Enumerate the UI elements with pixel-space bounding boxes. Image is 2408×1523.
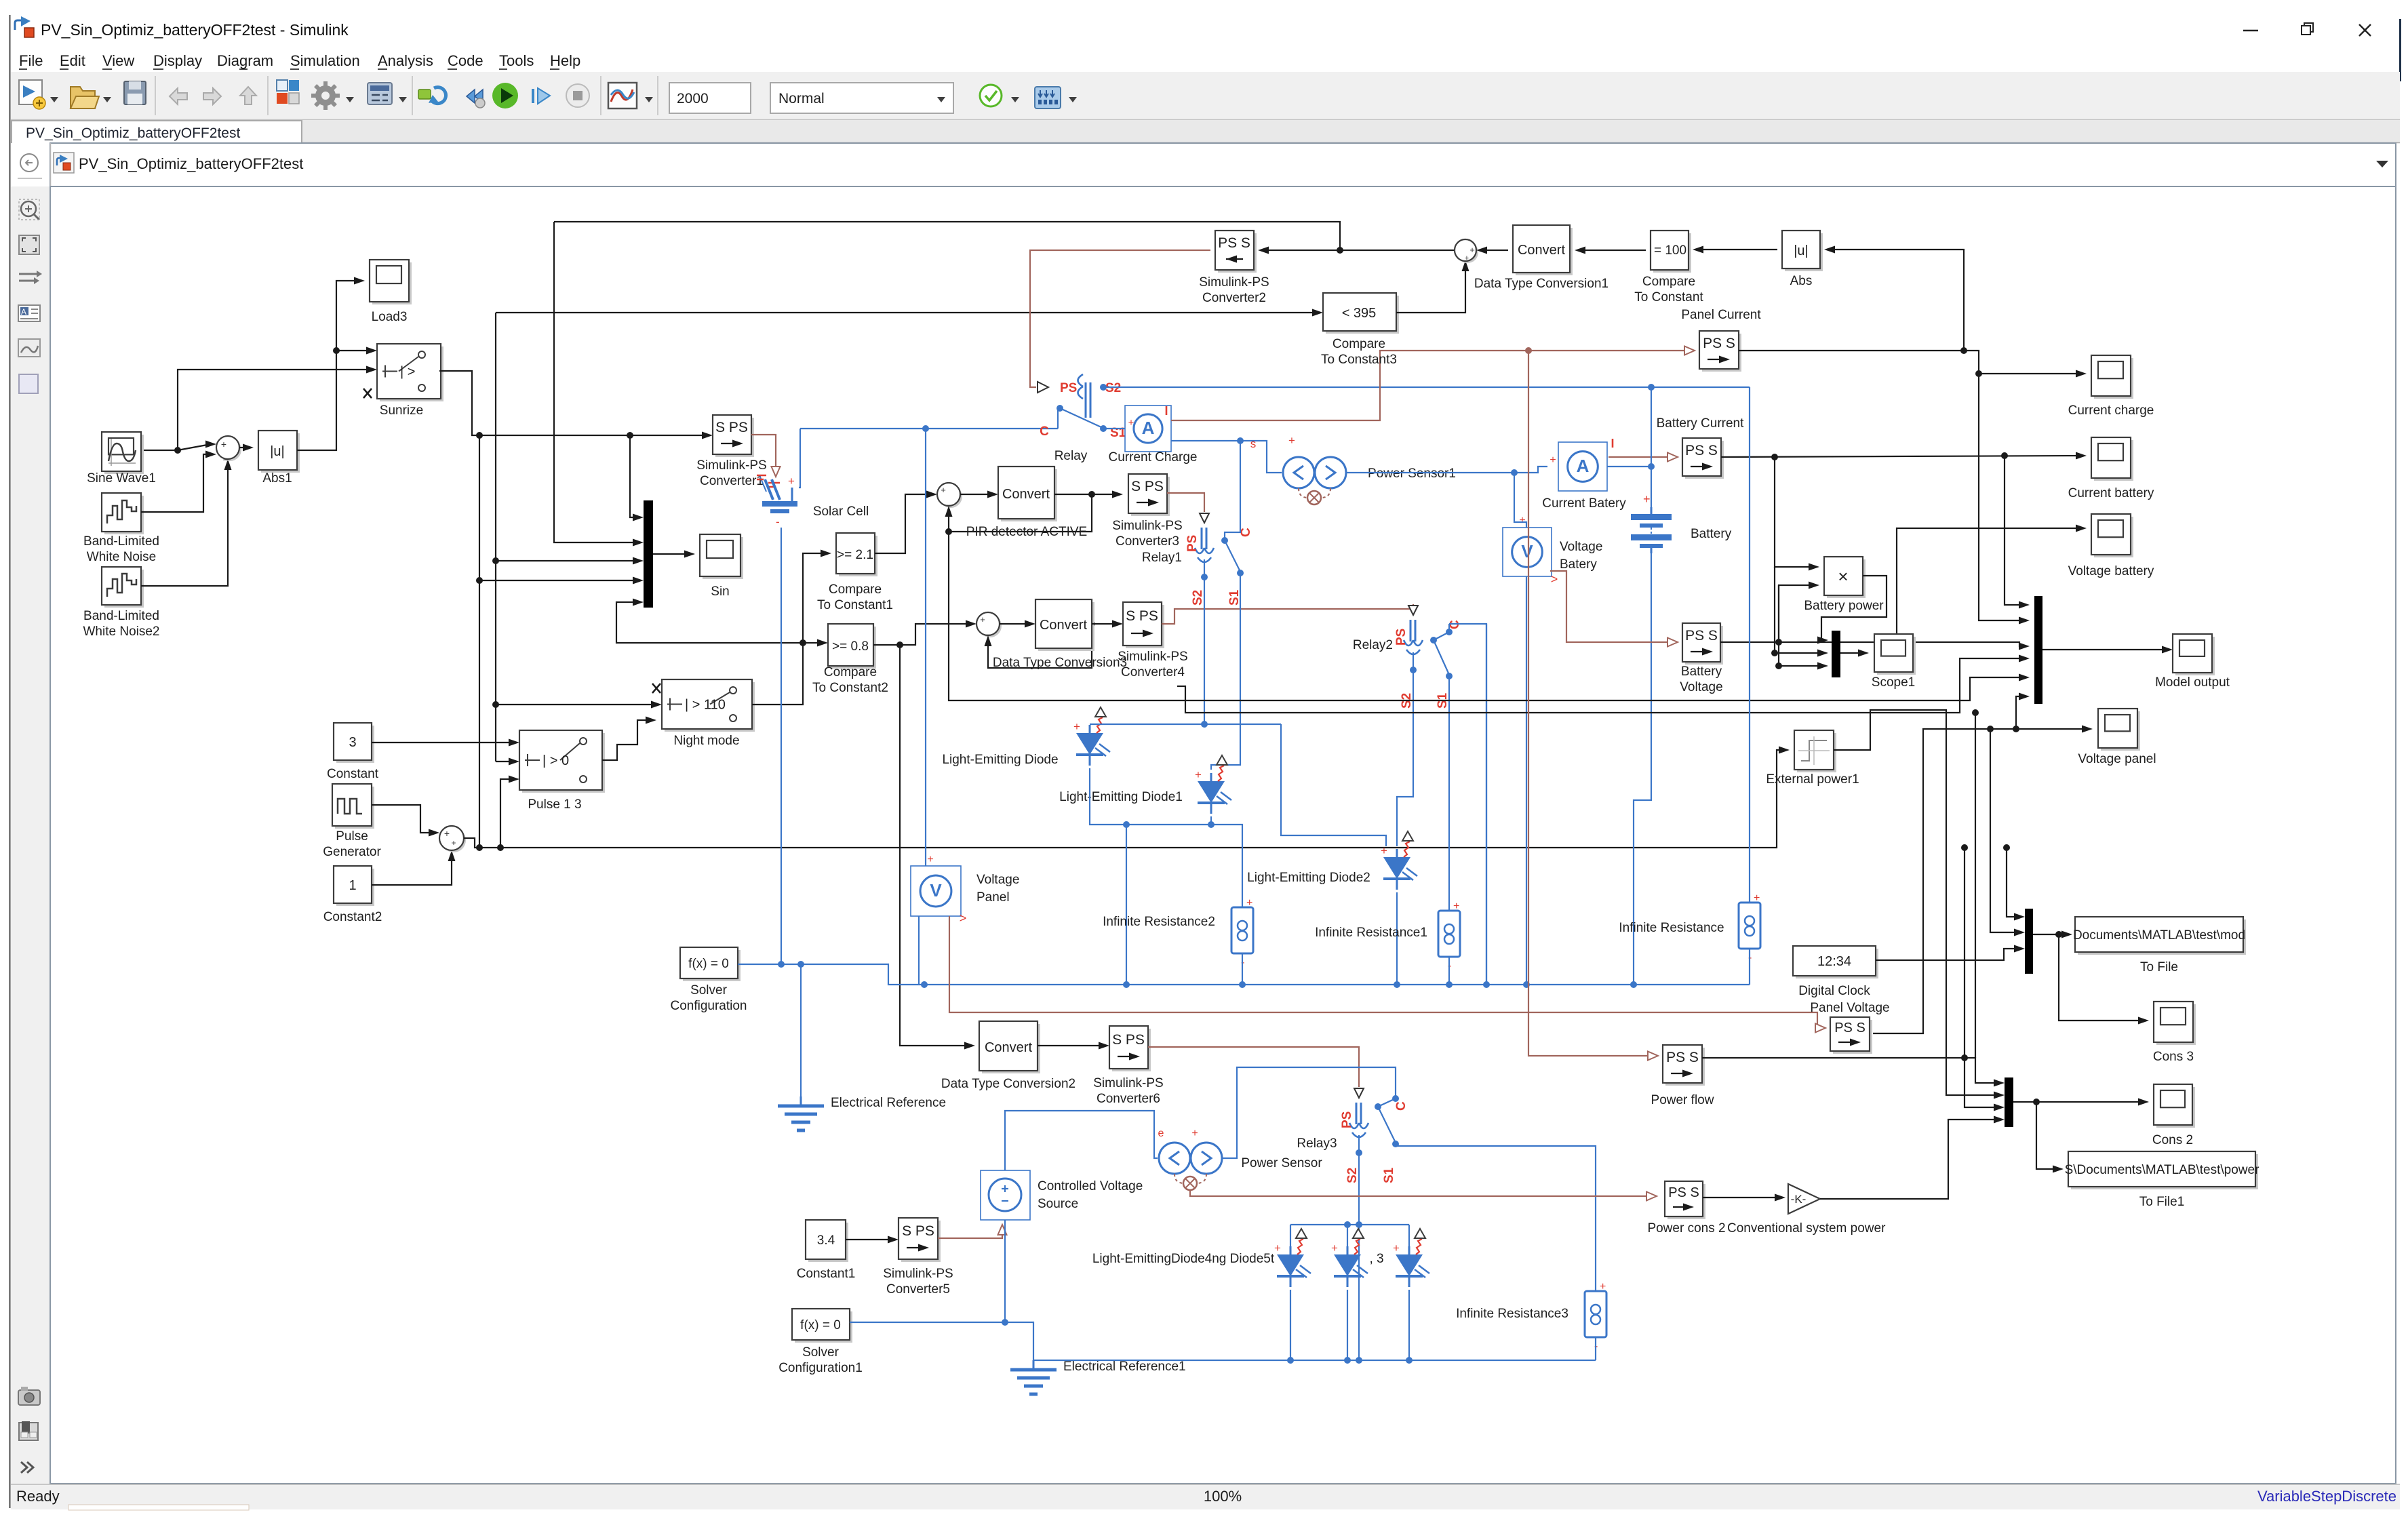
wire Infinite Resistance3 bottom to rail: [1595, 1337, 1596, 1360]
toolstrip separator: [18, 178, 42, 179]
svg-text:S1: S1: [1382, 1167, 1396, 1183]
wire LED bottoms to rail: [1290, 1290, 1291, 1360]
svg-text:+: +: [444, 828, 450, 839]
wire x2959 to To File mux in1: [2007, 848, 2019, 917]
wire Infinite Resistance bottom to rail y1452: [1749, 949, 1750, 985]
block Convert (Data Type Conversion3): [1038, 602, 1094, 651]
svg-text:-K-: -K-: [1791, 1193, 1807, 1206]
svg-text:12:34: 12:34: [1817, 954, 1851, 969]
block Simulink-PS Converter5: [901, 1221, 941, 1262]
svg-text:Power flow: Power flow: [1651, 1093, 1714, 1107]
svg-text:Simulink-PS: Simulink-PS: [696, 458, 766, 473]
wire DTC3 to Simulink-PS Converter4: [1092, 623, 1118, 625]
wire x731 to Night mode in2: [496, 704, 656, 705]
svg-text:Relay: Relay: [1054, 449, 1088, 463]
svg-text:Infinite Resistance1: Infinite Resistance1: [1315, 926, 1427, 940]
svg-text:Converter1: Converter1: [700, 474, 764, 488]
toolbar icon: run: [492, 83, 518, 108]
mux Scope1 mux: [1832, 631, 1840, 677]
svg-text:I: I: [1611, 437, 1614, 450]
svg-text:S PS: S PS: [1126, 608, 1158, 624]
svg-text:s: s: [1250, 437, 1257, 450]
block Sunrize switch: [380, 347, 443, 401]
svg-text:Current Charge: Current Charge: [1109, 450, 1198, 464]
component Current Charge ammeter: [1125, 406, 1171, 452]
svg-text:_: _: [947, 496, 952, 506]
wire x2623 to Battery power in2: [1779, 585, 1814, 642]
svg-text:Solver: Solver: [690, 983, 728, 997]
svg-text:Data Type Conversion2: Data Type Conversion2: [941, 1077, 1075, 1091]
svg-text:Current Batery: Current Batery: [1542, 496, 1626, 511]
svg-text:Convert: Convert: [1040, 618, 1087, 633]
wire Relay1 C from ammeter net: [1225, 441, 1240, 540]
breadcrumb model icon: [54, 153, 74, 173]
component Infinite Resistance: [1739, 903, 1760, 949]
wire Convert to Simulink-PS Converter3: [1054, 494, 1118, 495]
svg-text:+: +: [788, 475, 795, 488]
svg-text:+: +: [1288, 434, 1295, 447]
block Night mode switch: [665, 682, 755, 732]
svg-text:Simulink-PS: Simulink-PS: [1199, 275, 1269, 290]
toolbar icon: forward: [203, 88, 221, 104]
component LED3 (bottom): [1408, 1246, 1410, 1254]
toolbar icon: update diagram: [418, 87, 446, 104]
block Load3 scope: [372, 262, 412, 304]
svg-text:Light-Emitting Diode: Light-Emitting Diode: [942, 753, 1058, 767]
svg-text:1: 1: [349, 878, 356, 893]
svg-text:Compare: Compare: [824, 665, 877, 679]
svg-text:PS S: PS S: [1834, 1021, 1866, 1035]
svg-text:Band-Limited: Band-Limited: [83, 609, 159, 623]
svg-text:To Constant: To Constant: [1634, 290, 1703, 304]
component Solar Cell: [765, 479, 773, 500]
svg-text:+: +: [1195, 768, 1202, 781]
wire Night mode output up to compare lines: [752, 553, 826, 705]
svg-text:+: +: [1519, 515, 1525, 526]
block Voltage panel scope: [2101, 711, 2140, 751]
svg-text:Convert: Convert: [1518, 243, 1565, 258]
svg-text:Electrical Reference1: Electrical Reference1: [1063, 1360, 1186, 1374]
wire Power Sensor output to Relay3 C: [1222, 1067, 1396, 1158]
toolbar icon: back: [170, 88, 187, 104]
block Power cons 2 PS S: [1667, 1184, 1705, 1219]
svg-text:+: +: [1274, 1242, 1281, 1254]
svg-text:>: >: [1551, 572, 1558, 586]
block Simulink-PS Converter1: [715, 418, 754, 457]
window left border: [9, 15, 11, 1508]
wire Converter1 PS output down to Solar Cell: [751, 435, 776, 472]
wire Infinite Resistance1 to rail: [1448, 957, 1450, 985]
svg-text:| >: | >: [400, 365, 415, 380]
svg-text:Voltage: Voltage: [976, 873, 1019, 887]
svg-text:+: +: [1465, 254, 1469, 262]
svg-text:Panel Voltage: Panel Voltage: [1810, 1001, 1889, 1015]
wire Relay S1 to Current Charge ammeter: [1103, 428, 1126, 429]
svg-text:Solver: Solver: [802, 1345, 840, 1360]
wire Sum1 to Abs1: [239, 447, 248, 448]
toolstrip icon: screenshot camera: [18, 1387, 40, 1405]
block Current charge scope: [2094, 358, 2133, 399]
component Voltage Batery voltmeter: [1503, 528, 1552, 576]
active document tab: [12, 121, 302, 143]
window title bar: [0, 0, 2408, 51]
svg-text:To Constant3: To Constant3: [1321, 353, 1397, 367]
toolbar icon: model settings table: [368, 83, 392, 104]
svg-text:V: V: [930, 880, 942, 901]
sum block Sum5: [1457, 241, 1478, 263]
svg-text:Scope1: Scope1: [1872, 675, 1915, 690]
svg-text:Current battery: Current battery: [2068, 486, 2154, 500]
wire blue rail y571 from Relay S2: [1103, 387, 1750, 388]
wire LED2 bottom to rail: [1396, 892, 1398, 985]
svg-text:PS: PS: [1394, 629, 1408, 646]
svg-text:Convert: Convert: [985, 1040, 1032, 1055]
wire Pulse 1 3 inputs from x731: [496, 761, 514, 762]
svg-text:+: +: [1128, 417, 1134, 429]
wire Sum5 to Converter2: [1263, 250, 1455, 251]
svg-text:Light-EmittingDiode4ng Diode5t: Light-EmittingDiode4ng Diode5t: [1092, 1252, 1275, 1266]
svg-text:V: V: [1521, 541, 1533, 561]
wire Converter4 PS to Relay2: [1162, 604, 1413, 624]
svg-text:+: +: [1331, 1242, 1338, 1254]
svg-text:S PS: S PS: [1112, 1032, 1145, 1048]
toolbar icon: check (advisor): [980, 85, 1002, 106]
svg-text:Load3: Load3: [372, 310, 408, 324]
component Light-Emitting Diode1: [1210, 773, 1212, 781]
svg-text:Data Type Conversion1: Data Type Conversion1: [1474, 277, 1608, 291]
toolstrip icon: print: [19, 1421, 38, 1440]
wire Sum4 to Data Type Conversion3: [1000, 623, 1030, 625]
svg-text:External power1: External power1: [1766, 772, 1859, 787]
svg-text:Panel Current: Panel Current: [1681, 308, 1761, 322]
component LED4 (bottom): [1290, 1246, 1292, 1254]
wire top feedback y327: [554, 222, 1340, 250]
toolbar icon: library browser: [277, 80, 299, 104]
wire y461 to Compare To Constant3: [496, 312, 1318, 313]
wire Power Sensor1 to Current Batery: [1346, 467, 1547, 473]
wire gain output to Cons2 mux in4: [1820, 1120, 1999, 1199]
svg-text:S2: S2: [1105, 381, 1121, 395]
svg-text:Configuration1: Configuration1: [778, 1361, 863, 1375]
component Power Sensor1: [1283, 457, 1314, 488]
svg-text:+: +: [1381, 844, 1387, 857]
component Voltage Panel voltmeter: [911, 866, 961, 916]
block Cons 2 scope: [2156, 1087, 2195, 1128]
component LED5 (bottom): [1347, 1246, 1349, 1254]
svg-text:Power Sensor1: Power Sensor1: [1368, 467, 1456, 481]
sum block Sum3 (PIR): [939, 485, 962, 508]
block Panel Voltage PS S: [1833, 1020, 1872, 1054]
svg-text:+: +: [1073, 720, 1080, 733]
wire Cons2 mux to Cons 2 scope: [2013, 1101, 2144, 1103]
wire Solver Configuration to ground net: [738, 964, 1750, 985]
svg-text:f(x) = 0: f(x) = 0: [688, 957, 729, 971]
mux To File mux: [2025, 909, 2033, 974]
toolbar stop-time field: [669, 83, 751, 113]
wire stub mux in6: [949, 532, 2024, 700]
wire Solar Cell - down to ground net: [781, 528, 782, 964]
wire x2617 to Battery power in1: [1775, 457, 1814, 567]
block Compare To Constant1: [839, 536, 877, 576]
wire Relay2 S1 to Infinite Resistance1: [1448, 676, 1450, 911]
svg-text:PIR detector ACTIVE: PIR detector ACTIVE: [966, 525, 1087, 539]
svg-text:+: +: [221, 439, 226, 450]
svg-text:Converter2: Converter2: [1202, 291, 1266, 305]
sum block Sum2: [441, 828, 466, 852]
svg-text:= 100: = 100: [1654, 243, 1686, 258]
wire Converter6 PS to Relay3: [1148, 1047, 1359, 1087]
wire Digital Clock to To File mux: [1876, 949, 2019, 960]
toolbar icon: gear: [311, 81, 340, 110]
wire mux bottom in7 from Voltage panel line: [2016, 696, 2024, 729]
svg-text:_: _: [222, 450, 229, 460]
svg-text:PS S: PS S: [1666, 1050, 1699, 1065]
wire Voltage Panel top from blue rail y639: [925, 429, 926, 866]
sum block Sum1: [218, 438, 241, 461]
wire Relay2 S2 to Light-Emitting Diode2: [1397, 652, 1413, 846]
wire Solver Configuration1 to ground: [850, 1322, 1033, 1360]
block Battery Voltage PS S: [1685, 626, 1723, 665]
component Current Batery ammeter: [1558, 442, 1607, 491]
toolstrip icon: viewmarks: [19, 374, 38, 393]
wire Current Charge output to Power Sensor1: [1171, 441, 1282, 473]
wire LED5 top stub: [1347, 1225, 1348, 1246]
block Current battery scope: [2094, 440, 2133, 481]
svg-text:f(x) = 0: f(x) = 0: [800, 1318, 841, 1332]
component Infinite Resistance2: [1231, 907, 1253, 953]
svg-text:Light-Emitting Diode1: Light-Emitting Diode1: [1059, 790, 1183, 804]
toolbar icon: save: [124, 81, 146, 104]
svg-text:C: C: [1239, 528, 1253, 537]
wire Converter3 PS to Relay1: [1167, 493, 1204, 512]
wire Relay2 C to x2192: [1449, 624, 1486, 985]
toolstrip icon: annotation: [18, 305, 40, 321]
svg-text:Voltage battery: Voltage battery: [2068, 564, 2154, 578]
toolbar: [11, 72, 2400, 119]
wire Battery power to Scope1 mux in1: [1821, 576, 1887, 640]
wire Scope1 mux to Scope1: [1840, 652, 1863, 654]
wire Constant2 to Sum2 bottom: [372, 856, 452, 885]
block To File: [2078, 919, 2246, 955]
component Relay2: [1408, 606, 1418, 615]
svg-text:Cons 2: Cons 2: [2152, 1133, 2193, 1147]
svg-text:Constant2: Constant2: [323, 910, 382, 924]
sum block Sum4: [979, 614, 1002, 637]
component Controlled Voltage Source: [981, 1170, 1030, 1220]
block Compare To Constant (= 1000): [1653, 233, 1691, 273]
wire LED bottoms rail y1216: [1090, 768, 1242, 908]
gain block -K- Conventional system power: [1788, 1184, 1820, 1214]
svg-text:+: +: [1469, 245, 1475, 255]
wire x2192 vertical from power sensor line: [1486, 624, 1487, 985]
wire Battery bottom to rail y1452: [1634, 553, 1651, 985]
svg-text:>= 0.8: >= 0.8: [832, 639, 869, 654]
svg-text:Generator: Generator: [323, 845, 381, 859]
wire brown x2254 to Power flow: [1528, 351, 1653, 1056]
svg-text:|u|: |u|: [1794, 243, 1809, 258]
svg-text:Converter3: Converter3: [1116, 534, 1179, 549]
svg-text:Relay1: Relay1: [1142, 551, 1182, 565]
svg-text:Solar Cell: Solar Cell: [813, 505, 869, 519]
toolbar icon: build grid: [1035, 87, 1061, 108]
toolbar mode dropdown: [770, 83, 953, 113]
wire External power1 output: [1834, 710, 1999, 1095]
svg-text:Constant1: Constant1: [797, 1267, 856, 1281]
toolbar icon: open: [71, 87, 99, 108]
svg-text:Voltage: Voltage: [1680, 680, 1722, 694]
svg-text:Abs1: Abs1: [262, 471, 292, 486]
wire Infinite Resistance2 to rail: [1242, 953, 1243, 985]
component Battery: [1651, 507, 1653, 514]
component Infinite Resistance1: [1438, 911, 1460, 957]
svg-text:Digital Clock: Digital Clock: [1798, 984, 1870, 998]
component Relay: [1038, 382, 1048, 393]
window close button: [2359, 24, 2371, 36]
component Electrical Reference1 ground: [1033, 1360, 1035, 1370]
svg-text:Power Sensor: Power Sensor: [1241, 1156, 1322, 1170]
toolbar icon: new model: [19, 80, 45, 109]
svg-text:Panel: Panel: [976, 890, 1010, 905]
svg-text:S PS: S PS: [1131, 479, 1164, 494]
toolstrip icon: zoom: [19, 199, 39, 220]
svg-text:Sunrize: Sunrize: [380, 403, 423, 418]
svg-text:|u|: |u|: [270, 444, 285, 459]
wire Compare To Constant3 to Sum5 bottom: [1396, 266, 1465, 313]
block Model output scope: [2175, 637, 2215, 675]
svg-text:Infinite Resistance2: Infinite Resistance2: [1103, 915, 1215, 929]
wire Sum2 to long feedback line and External power1: [464, 750, 1784, 848]
status bar: [11, 1484, 2400, 1509]
toolstrip expand chevrons: [21, 1462, 33, 1473]
component Infinite Resistance3: [1585, 1291, 1606, 1337]
wire Sum4 bottom feedback from DTC3 output: [988, 624, 1092, 668]
wire Abs to Compare To Constant: [1698, 249, 1777, 250]
block Constant2 value 1: [336, 869, 374, 906]
wire blue rail y639 from Solar Cell to Relay C: [800, 428, 1058, 429]
svg-text:Converter4: Converter4: [1121, 665, 1185, 679]
svg-text:Convert: Convert: [1002, 487, 1050, 502]
wire Controlled Voltage Source bottom to ground rail: [1004, 1220, 1006, 1322]
block Pulse Generator: [335, 787, 374, 829]
wire Abs input from x2896 (panel current loop): [1830, 250, 1964, 351]
svg-text:Battery Current: Battery Current: [1657, 416, 1745, 431]
svg-text:S PS: S PS: [715, 420, 748, 435]
wire Relay3 S2 down to LED rail: [1358, 1135, 1360, 1360]
svg-text:+: +: [1246, 897, 1252, 909]
wire Compare To Constant1 to Sum3: [875, 494, 932, 553]
wire Sine Wave1 to Sum1 and Sunrize in2: [141, 450, 178, 451]
svg-text:To File: To File: [2140, 960, 2178, 974]
svg-text:_: _: [986, 626, 991, 635]
svg-text:A: A: [1577, 456, 1590, 476]
svg-text:Sine Wave1: Sine Wave1: [87, 471, 156, 486]
svg-text:Batery: Batery: [1560, 557, 1597, 572]
svg-text:Infinite Resistance3: Infinite Resistance3: [1456, 1307, 1568, 1321]
svg-text:C: C: [1040, 424, 1049, 439]
block Convert (Data Type Conversion2): [982, 1024, 1040, 1073]
wire Relay1 S2 down to LED rail: [1204, 559, 1205, 724]
wire vertical x707 distribution: [479, 435, 480, 848]
component Relay3: [1354, 1088, 1364, 1098]
wire Convert DTC1 to Sum5: [1482, 250, 1508, 251]
svg-text:>: >: [960, 911, 967, 925]
svg-text:Compare: Compare: [1333, 337, 1385, 351]
svg-text:Night mode: Night mode: [673, 734, 739, 748]
wire To File mux to To File: [2033, 934, 2067, 935]
window minimize button: [2243, 30, 2258, 31]
block Simulink-PS Converter3: [1131, 477, 1170, 516]
svg-text:×: ×: [1838, 566, 1848, 587]
svg-text:Band-Limited: Band-Limited: [83, 534, 159, 549]
block Simulink-PS Converter6: [1112, 1029, 1151, 1071]
component Electrical Reference ground: [800, 1096, 802, 1106]
svg-text:+: +: [1643, 492, 1651, 506]
block Abs (top right): [1785, 233, 1823, 271]
svg-text:S PS: S PS: [902, 1223, 934, 1239]
svg-text:| > 110: | > 110: [685, 698, 726, 713]
wire x731 vertical: [495, 313, 496, 761]
svg-text:+: +: [1600, 1281, 1606, 1292]
svg-text:To Constant2: To Constant2: [812, 681, 888, 695]
mux Mux1 (5 inputs to Sin): [644, 500, 653, 608]
svg-text:I: I: [1164, 404, 1168, 418]
svg-text:Model output: Model output: [2155, 675, 2230, 690]
wire Voltage Batery PS output to Battery Voltage PS S: [1550, 571, 1672, 642]
svg-text:Cons 3: Cons 3: [2153, 1050, 2194, 1064]
wire Current Charge I output to Panel Current PS S: [1171, 351, 1689, 420]
wire Battery Current to Current battery scope and mux: [1721, 456, 2081, 457]
mux Model output mux: [2034, 596, 2042, 704]
component Light-Emitting Diode: [1089, 725, 1091, 733]
svg-text:Abs: Abs: [1790, 274, 1813, 288]
block Convert (PIR detector): [1001, 469, 1057, 521]
svg-text:< 395: < 395: [1342, 306, 1377, 321]
block Battery power (product): [1827, 559, 1866, 598]
document tab bar: [11, 120, 2400, 143]
svg-text:White Noise2: White Noise2: [83, 625, 160, 639]
wire Sum3 to Convert PIR: [960, 494, 993, 495]
svg-text:To Constant1: To Constant1: [817, 598, 893, 612]
svg-text:+: +: [451, 838, 456, 848]
wire x1661 to bottom rail: [1126, 825, 1127, 985]
wire Model output mux to Model output scope: [2042, 649, 2167, 650]
wire x2623 to Scope1 mux in3: [1779, 585, 1823, 666]
block Voltage battery scope: [2094, 517, 2133, 557]
wire Band-Limited White Noise to Sum1: [141, 454, 211, 512]
toolbar icon: step back: [467, 90, 485, 108]
wire stub mux in5: [1177, 658, 2024, 713]
wire Relay PS input from Converter2: [1030, 250, 1210, 387]
svg-text:Light-Emitting Diode2: Light-Emitting Diode2: [1247, 871, 1370, 885]
wire Voltage Batery top tap from x2233: [1514, 473, 1526, 528]
wire x2918 branch to Current charge scope: [1979, 373, 2081, 374]
svg-text:Sin: Sin: [711, 585, 729, 599]
wire Panel Current output to x2918: [1739, 351, 2024, 620]
component Power Sensor (bottom): [1159, 1143, 1190, 1174]
breadcrumb bar: [50, 143, 2396, 186]
wire DTC2 to Simulink-PS Converter6: [1038, 1045, 1104, 1046]
toolstrip icon: fit to view: [19, 235, 39, 254]
wire LED top rail y1068: [1090, 724, 1281, 725]
window right border: [2399, 19, 2401, 81]
svg-text:Conventional system power: Conventional system power: [1727, 1221, 1886, 1235]
toolstrip icon: signal arrows: [19, 271, 42, 284]
svg-text:C: C: [1394, 1101, 1408, 1111]
wire x1327 down to Data Type Conversion2: [900, 645, 970, 1046]
toolstrip icon: sample time display: [18, 339, 40, 357]
wire Voltage Batery bottom to rail: [1526, 576, 1527, 985]
wire Voltage Panel bottom to rail: [918, 916, 920, 985]
